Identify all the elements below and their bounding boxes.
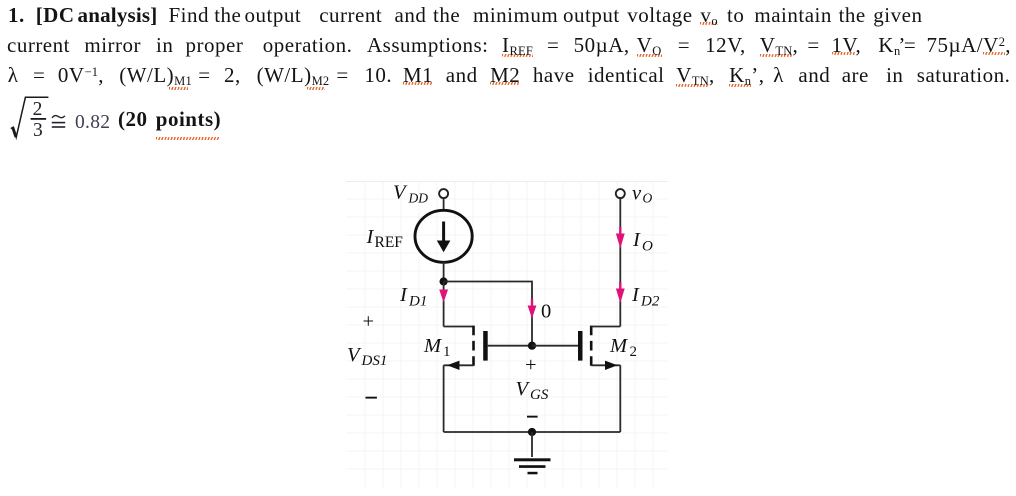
text line 1 bbox=[0, 3, 1016, 27]
svg-text:0: 0 bbox=[541, 301, 551, 323]
minus sign (VDS1) bbox=[366, 397, 377, 399]
svg-text:I: I bbox=[632, 229, 641, 251]
wire M1 source down bbox=[443, 365, 445, 432]
fraction bar bbox=[31, 118, 46, 120]
label v_o bbox=[632, 183, 653, 206]
svg-text:I: I bbox=[631, 284, 640, 306]
svg-text:v: v bbox=[632, 183, 642, 205]
ground symbol bbox=[514, 458, 551, 474]
wire terminal to current source bbox=[443, 198, 445, 211]
svg-text:GS: GS bbox=[530, 387, 549, 403]
formula sqrt(2/3) ~= 0.82 bbox=[0, 88, 120, 150]
terminal vo (open circle) bbox=[616, 189, 625, 198]
current arrow I_O (magenta) bbox=[616, 234, 625, 249]
current arrow I_D2 (magenta) bbox=[616, 289, 625, 304]
svg-text:DD: DD bbox=[408, 191, 429, 206]
svg-text:O: O bbox=[643, 191, 653, 206]
(20 points) bold bbox=[0, 107, 1016, 131]
svg-text:2: 2 bbox=[630, 344, 638, 360]
svg-text:M: M bbox=[423, 335, 443, 357]
terminal VDD (open circle) bbox=[439, 189, 448, 198]
bottom rail wire bbox=[444, 431, 621, 433]
svg-text:M: M bbox=[609, 335, 629, 357]
label I_D2 bbox=[631, 284, 660, 310]
transistor M2 bbox=[578, 326, 620, 370]
svg-text:D2: D2 bbox=[640, 294, 660, 310]
current arrow 0 (magenta) bbox=[528, 306, 537, 319]
label I_REF bbox=[366, 226, 404, 251]
node (junction dot) bbox=[440, 277, 448, 285]
minus sign (VGS) bbox=[527, 416, 538, 418]
svg-text:+: + bbox=[525, 354, 537, 376]
svg-text:1: 1 bbox=[443, 344, 451, 360]
radical sign bbox=[11, 97, 49, 137]
wire M2 drain up to vo terminal bbox=[619, 198, 621, 327]
current source I_REF (circle with down arrow) bbox=[415, 210, 472, 262]
label V_DS1 bbox=[347, 344, 387, 369]
ground stub wire bbox=[531, 432, 533, 457]
wire M2 source down bbox=[619, 365, 621, 432]
label M1 bbox=[423, 335, 451, 360]
label V_GS bbox=[516, 378, 549, 403]
svg-text:DS1: DS1 bbox=[361, 353, 388, 369]
label V_DD bbox=[393, 182, 428, 206]
faint image edge bbox=[346, 181, 668, 182]
svg-text:O: O bbox=[642, 239, 653, 255]
label M2 bbox=[609, 335, 637, 360]
wire node down to M1 drain bbox=[443, 282, 445, 327]
node on bottom rail bbox=[528, 428, 536, 436]
gate node dot bbox=[528, 342, 536, 350]
svg-text:REF: REF bbox=[375, 234, 404, 251]
svg-text:V: V bbox=[347, 344, 362, 366]
svg-text:+: + bbox=[363, 311, 375, 333]
wire current source to node bbox=[443, 262, 445, 286]
label I_O bbox=[632, 229, 653, 255]
transistor M1 bbox=[444, 326, 532, 370]
label I_D1 bbox=[399, 284, 427, 310]
svg-text:V: V bbox=[393, 182, 408, 204]
current arrow I_D1 (magenta) bbox=[439, 290, 448, 303]
svg-text:D1: D1 bbox=[408, 294, 427, 310]
wire node to gate branch (right then down) bbox=[444, 282, 532, 346]
text line 3 bbox=[0, 63, 1016, 87]
wire gate node to M2 gate bbox=[532, 345, 578, 347]
approx equal sign bbox=[52, 116, 65, 118]
text line 2 bbox=[0, 33, 1016, 57]
svg-text:I: I bbox=[399, 284, 408, 306]
svg-text:I: I bbox=[366, 226, 375, 248]
